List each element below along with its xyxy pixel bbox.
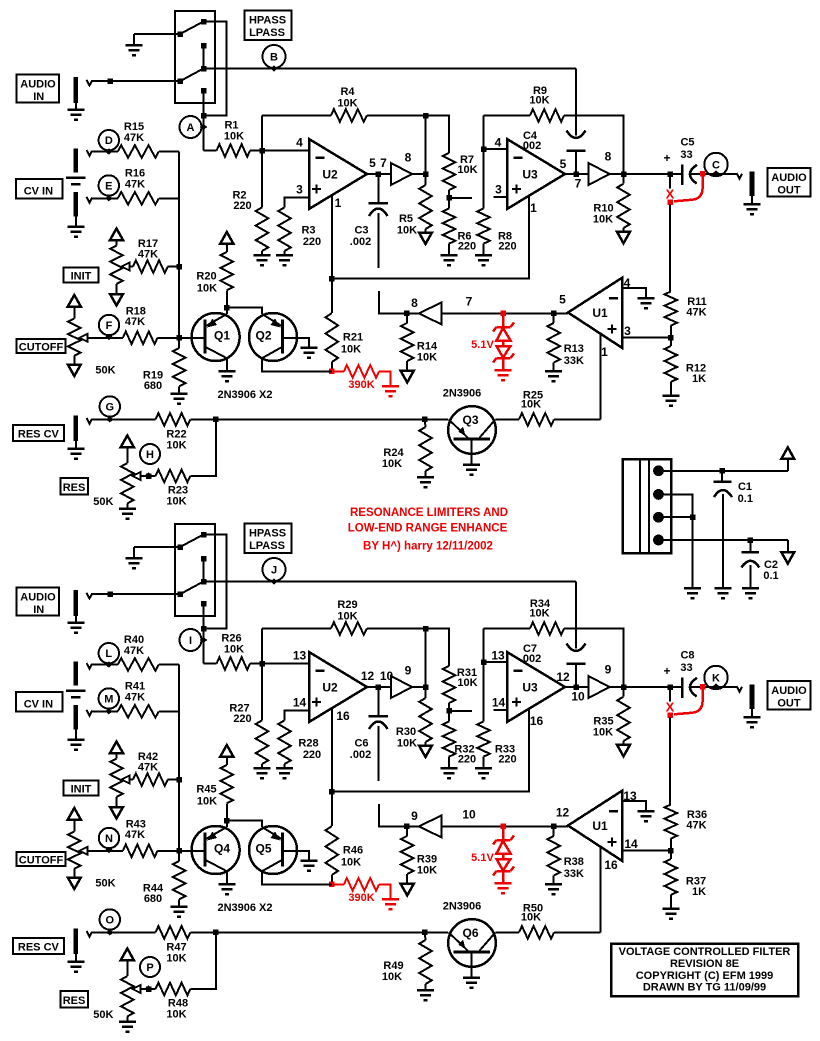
supply arrow -V [781, 552, 794, 564]
wire U3 pin 16 compensation [332, 709, 529, 792]
node G [100, 396, 120, 416]
resistor R24 10K [419, 427, 432, 471]
supply arrow R10 [623, 228, 625, 232]
wire Q2 base to ground [283, 338, 309, 348]
junction U2 pin compensation [329, 276, 335, 282]
label box INIT [64, 267, 99, 282]
svg-text:33: 33 [680, 149, 692, 161]
resistor R8 220 [477, 209, 490, 244]
node K [704, 666, 727, 689]
svg-text:CV IN: CV IN [24, 699, 53, 711]
svg-text:10K: 10K [382, 971, 402, 983]
svg-text:33K: 33K [564, 355, 584, 367]
wire switch ground [134, 33, 180, 35]
resistor R36 47K [665, 805, 678, 839]
junction C2 [748, 537, 754, 543]
op-amp U2 [309, 652, 367, 722]
ground Q3 base [471, 952, 473, 978]
supply arrow R20 [220, 745, 233, 757]
svg-text:REVISION 8E: REVISION 8E [670, 958, 739, 970]
cv input tick D [87, 150, 93, 156]
wire U3 pin 1 compensation [332, 196, 529, 279]
svg-text:.002: .002 [350, 749, 371, 761]
junction R11/R12/U1 plus [668, 335, 674, 341]
wire C5 junction to R11 [669, 174, 671, 188]
wire buffer output [412, 173, 426, 175]
label box CUTOFF [17, 852, 66, 866]
ground Q3 base [471, 439, 473, 465]
cv in jack lower [74, 192, 79, 216]
capacitor C5 33 [670, 173, 682, 175]
res cv input tick [87, 931, 93, 937]
wire middle contact to pole [203, 559, 205, 582]
junction R23 riser [213, 417, 219, 423]
svg-text:47K: 47K [124, 132, 144, 144]
supply arrow R14 [406, 874, 408, 884]
node E [99, 175, 119, 195]
audio in jack [74, 590, 79, 616]
svg-text:R45: R45 [196, 784, 216, 796]
svg-text:4: 4 [495, 136, 502, 150]
supply arrow CUTOFF pot [68, 295, 81, 307]
wire bus to Q1 base [179, 850, 205, 852]
ground R8 [483, 244, 485, 256]
ground C1 [714, 587, 731, 590]
svg-text:10K: 10K [197, 796, 217, 808]
svg-text:RES CV: RES CV [18, 942, 60, 954]
wire node A to R1 [203, 116, 205, 151]
svg-text:10K: 10K [341, 344, 361, 356]
junction 390K (red) [329, 882, 335, 888]
svg-text:C1: C1 [738, 481, 752, 493]
wire U3 output [565, 173, 589, 175]
svg-text:33: 33 [680, 662, 692, 674]
node B [263, 45, 286, 68]
svg-text:16: 16 [530, 714, 544, 728]
resistor R44 680 [173, 861, 186, 899]
wire R9 right leg [564, 629, 624, 688]
svg-text:G: G [106, 402, 115, 414]
wire U3 buffer output [610, 173, 671, 175]
supply arrow +V [781, 447, 794, 459]
ground zener (red) [495, 882, 512, 885]
wire wiper to R23 [140, 988, 156, 990]
resistor R42 47K wiper [129, 779, 134, 781]
resistor R31 10K [443, 666, 456, 703]
resistor R7 10K [443, 153, 456, 190]
junction R9/R10 output [621, 684, 627, 690]
node M [99, 688, 119, 708]
svg-text:10K: 10K [521, 399, 541, 411]
op-amp U3 [507, 139, 565, 209]
wire U2 pin 4 [262, 150, 309, 152]
junction R24 [422, 930, 428, 936]
resistor R43 47K [123, 845, 158, 858]
svg-text:CUTOFF: CUTOFF [19, 342, 64, 354]
junction C4/U3 output [573, 171, 579, 177]
junction R1/R4/R2 [259, 148, 265, 154]
ground R6 [448, 757, 450, 769]
wire U2 output pin 5 [367, 173, 391, 175]
op-amp U2 [309, 139, 367, 209]
wire U2 pin 1 compensation [331, 195, 333, 278]
svg-text:5: 5 [560, 157, 567, 171]
wire U1 pin 13 to ground [622, 801, 646, 811]
svg-text:RESONANCE LIMITERS AND: RESONANCE LIMITERS AND [350, 507, 508, 519]
wire R22 to R24 [190, 418, 448, 420]
wire R20 to emitters [226, 290, 228, 307]
wire R25 to U1 pin 1 [554, 418, 601, 420]
ground audio in jack [75, 103, 77, 110]
node P [140, 957, 160, 977]
cv in jack upper [74, 661, 79, 685]
svg-text:220: 220 [498, 241, 516, 253]
junction buffer output [423, 684, 429, 690]
inverter buffer [419, 815, 442, 837]
junction R14 [404, 824, 410, 830]
resistor R40 47K [118, 658, 159, 671]
svg-text:AUDIO: AUDIO [20, 79, 56, 91]
svg-text:HPASS: HPASS [249, 15, 286, 27]
inverter buffer [419, 302, 442, 324]
svg-text:50K: 50K [93, 1009, 113, 1021]
label box AUDIO OUT [768, 168, 811, 197]
wire U1 output [442, 312, 569, 314]
svg-text:C3: C3 [354, 225, 368, 237]
svg-text:J: J [271, 565, 277, 577]
zener diodes 5.1V [500, 824, 506, 830]
switch contact middle [201, 556, 207, 562]
ground RES pot [126, 1016, 128, 1021]
wiper arrow R17 [122, 263, 130, 271]
ground switch [133, 34, 135, 45]
svg-text:7: 7 [466, 295, 473, 309]
ground R13 [553, 363, 555, 371]
ground R13 [553, 876, 555, 884]
junction C5 [667, 171, 673, 177]
junction audio in [107, 78, 113, 84]
resistor R47 10K [156, 926, 191, 939]
wire U2 plus input to R3 [285, 198, 310, 208]
svg-text:4: 4 [296, 136, 303, 150]
wire R11 to pin [670, 326, 672, 346]
svg-text:14: 14 [293, 696, 307, 710]
resistor R11 47K [665, 292, 678, 326]
svg-text:10K: 10K [382, 458, 402, 470]
audio out jack [750, 172, 755, 197]
junction R4/buffer output [423, 626, 429, 632]
svg-text:AUDIO: AUDIO [20, 592, 56, 604]
svg-text:P: P [146, 962, 153, 974]
svg-text:R4: R4 [340, 86, 355, 98]
supply arrow R10 [623, 741, 625, 745]
svg-text:R46: R46 [343, 845, 363, 857]
resistor 390K (red) [344, 878, 379, 891]
wiper arrow RES pot [133, 985, 141, 993]
svg-text:X: X [666, 187, 675, 202]
junction R11/R12/U1 plus [668, 848, 674, 854]
label box AUDIO OUT [768, 681, 811, 710]
label box RES CV [13, 425, 64, 441]
svg-text:10: 10 [462, 808, 476, 822]
svg-text:1: 1 [601, 345, 608, 359]
svg-text:+: + [663, 151, 670, 165]
ground R6 [448, 244, 450, 256]
cv in jack upper [74, 148, 79, 172]
wire R22 to R24 [190, 931, 448, 933]
cv input tick L [87, 663, 93, 669]
svg-text:1K: 1K [692, 886, 706, 898]
wire R9 left leg [484, 628, 531, 630]
RES pot supply arrow [121, 949, 134, 961]
resistor R26 10K [217, 657, 250, 670]
svg-text:1: 1 [335, 196, 342, 210]
svg-text:12: 12 [361, 669, 375, 683]
svg-text:47K: 47K [686, 307, 706, 319]
capacitor C4 .002 [575, 69, 577, 136]
svg-text:U3: U3 [522, 168, 538, 182]
svg-text:AUDIO: AUDIO [771, 172, 807, 184]
junction node A [201, 113, 207, 119]
svg-text:12: 12 [556, 806, 570, 820]
resistor R17 47K wiper [129, 266, 134, 268]
ground 390K (red) [382, 385, 399, 388]
wire Q2 base to ground [283, 851, 309, 861]
resistor R12 1K [665, 346, 678, 382]
svg-text:220: 220 [233, 200, 251, 212]
wire R4 right leg [367, 628, 426, 630]
svg-text:47K: 47K [138, 762, 158, 774]
svg-text:10K: 10K [457, 164, 477, 176]
svg-text:OUT: OUT [777, 185, 801, 197]
wire inverter output [406, 825, 419, 827]
svg-text:5.1V: 5.1V [471, 339, 494, 351]
svg-text:10K: 10K [224, 131, 244, 143]
wire R4 left leg [261, 116, 263, 151]
cv in jack plates [66, 177, 86, 180]
resistor R28 220 [278, 720, 291, 764]
ground C2 [742, 587, 759, 590]
svg-text:LOW-END RANGE ENHANCE: LOW-END RANGE ENHANCE [348, 523, 508, 535]
ground zener (red) [495, 369, 512, 372]
resistor R50 10K [519, 926, 554, 939]
wire buffer output to R5 [425, 116, 427, 186]
switch contact top [201, 532, 207, 538]
wire R18 to bus [158, 850, 180, 852]
svg-text:10: 10 [571, 690, 585, 704]
wire C3 to inverter output [379, 291, 406, 313]
svg-text:8: 8 [411, 296, 418, 310]
svg-text:10K: 10K [397, 225, 417, 237]
ground R24 [425, 984, 427, 990]
wire R9 left leg [484, 115, 531, 117]
wire R16 to bus [159, 710, 179, 712]
svg-text:LPASS: LPASS [249, 540, 285, 552]
svg-text:4: 4 [624, 276, 631, 290]
switch contact bottom [201, 601, 207, 607]
junction R24 [422, 417, 428, 423]
wire R16 to bus [159, 197, 179, 199]
wire R1 to U2 inverting input [250, 663, 262, 665]
audio in jack [74, 77, 79, 103]
svg-text:680: 680 [144, 893, 162, 905]
wire inverter output [406, 312, 419, 314]
resistor R9 10K [530, 109, 564, 122]
potentiometer RES 50K [121, 463, 134, 503]
svg-text:3: 3 [495, 183, 502, 197]
label box INIT [64, 780, 99, 795]
svg-text:M: M [104, 694, 113, 706]
supply arrow CUTOFF pot bottom [73, 869, 75, 878]
transistor Q3 2N3906 [448, 406, 496, 454]
switch contact top [201, 19, 207, 25]
wire to R2 [261, 664, 263, 721]
transistor Q6 2N3906 [448, 919, 496, 967]
op-amp U3 [507, 652, 565, 722]
wiper arrow R17 [122, 776, 130, 784]
wire U1 pin 1 [600, 334, 602, 419]
label box CV IN [16, 179, 63, 198]
junction U3 inverting input [481, 146, 487, 152]
resistor R48 10K [156, 983, 191, 996]
svg-text:U1: U1 [592, 306, 608, 320]
buffer U3b [589, 676, 610, 698]
svg-text:D: D [105, 135, 113, 147]
junction R7/R6 [446, 708, 452, 714]
wire Q2 collector to 390K [262, 358, 332, 371]
node N [99, 828, 119, 848]
label box CUTOFF [17, 339, 66, 353]
svg-text:9: 9 [411, 809, 418, 823]
wire -V supply [659, 539, 788, 541]
svg-text:5: 5 [559, 293, 566, 307]
wire middle contact to pole [203, 46, 205, 69]
svg-text:Q4: Q4 [214, 842, 230, 856]
svg-text:10K: 10K [397, 738, 417, 750]
ground R12 [670, 895, 672, 909]
resistor R27 220 [256, 720, 269, 764]
supply arrow R20 [220, 232, 233, 244]
supply arrow INIT pot [110, 742, 123, 754]
ground switch [133, 547, 135, 558]
node A [180, 116, 202, 138]
wire U1 output [442, 825, 569, 827]
ground R8 [483, 757, 485, 769]
svg-text:1: 1 [530, 201, 537, 215]
supply arrow CUTOFF pot [68, 808, 81, 820]
wire +V supply [659, 470, 788, 472]
svg-text:5: 5 [369, 156, 376, 170]
wire pin3 ground [659, 516, 693, 518]
capacitor C6 .002 [377, 687, 379, 716]
node D [99, 130, 119, 150]
svg-text:U2: U2 [322, 168, 338, 182]
resistor R14 10K [406, 313, 408, 323]
ground R3 [284, 251, 286, 255]
svg-text:12: 12 [556, 670, 570, 684]
wire R9 left to U3 pin [483, 116, 485, 209]
ground Q1 collector [226, 358, 228, 371]
wire Q2 emitter [227, 821, 262, 827]
wire to R7 [426, 116, 450, 154]
resistor R10 10K [623, 174, 625, 184]
wire 390K to ground [379, 884, 391, 899]
wire res cv to R22 [92, 931, 156, 933]
svg-text:390K: 390K [348, 892, 374, 904]
svg-text:10K: 10K [166, 1009, 186, 1021]
svg-text:R30: R30 [396, 726, 416, 738]
ground R19 [178, 386, 180, 393]
switch S2 box [175, 524, 215, 616]
svg-text:3: 3 [296, 183, 303, 197]
resistor R15 47K [118, 145, 159, 158]
power connector J1 [623, 459, 671, 553]
connector pin 1 [653, 465, 664, 476]
wire node J output [204, 581, 577, 583]
svg-text:10K: 10K [593, 727, 613, 739]
resistor R41 47K [118, 705, 159, 718]
svg-text:AUDIO: AUDIO [771, 685, 807, 697]
capacitor C8 33 [670, 686, 682, 688]
junction emitters [224, 818, 230, 824]
svg-text:E: E [105, 181, 112, 193]
svg-text:HPASS: HPASS [249, 528, 286, 540]
svg-text:DRAWN BY TG 11/09/99: DRAWN BY TG 11/09/99 [643, 982, 766, 994]
wire wiper to R23 [140, 475, 156, 477]
junction U2 pin compensation [329, 789, 335, 795]
svg-text:220: 220 [303, 749, 321, 761]
svg-text:R20: R20 [196, 271, 216, 283]
title box [611, 944, 798, 997]
node I [180, 629, 202, 651]
junction node I [201, 626, 207, 632]
resistor R35 10K [623, 687, 625, 697]
svg-text:7: 7 [575, 177, 582, 191]
svg-text:.002: .002 [520, 140, 541, 152]
ground U1 pin 4 [638, 297, 655, 300]
svg-text:CUTOFF: CUTOFF [19, 855, 64, 867]
audio input tick [87, 80, 93, 86]
svg-text:8: 8 [405, 151, 412, 165]
potentiometer R17 47K [110, 246, 123, 284]
wire R18 to bus [158, 337, 180, 339]
svg-text:47K: 47K [125, 179, 145, 191]
capacitor C7 .002 [575, 582, 577, 649]
potentiometer R42 47K [110, 759, 123, 797]
svg-text:LPASS: LPASS [249, 27, 285, 39]
wire R7/R6 stub [449, 197, 472, 199]
wire U2 plus input to R3 [285, 711, 310, 721]
svg-text:BY H^) harry 12/11/2002: BY H^) harry 12/11/2002 [363, 541, 493, 553]
junction 390K (red) [329, 369, 335, 375]
node J [263, 558, 286, 581]
svg-text:Q2: Q2 [255, 329, 271, 343]
cv input tick M [87, 710, 93, 716]
junction R1/R4/R2 [259, 661, 265, 667]
res cv input tick [87, 418, 93, 424]
ground cv in [75, 729, 77, 739]
transistor Q1 [192, 313, 240, 361]
audio output tick [737, 686, 743, 692]
label box HPASS LPASS [245, 11, 292, 41]
svg-text:Q3: Q3 [462, 413, 478, 427]
svg-text:10K: 10K [166, 440, 186, 452]
supply arrow INIT pot bottom [116, 284, 118, 294]
wire buffer output to R5 [425, 629, 427, 699]
svg-text:47K: 47K [125, 316, 145, 328]
svg-text:VOLTAGE CONTROLLED FILTER: VOLTAGE CONTROLLED FILTER [619, 946, 791, 958]
resistor R1 10K [217, 144, 250, 157]
